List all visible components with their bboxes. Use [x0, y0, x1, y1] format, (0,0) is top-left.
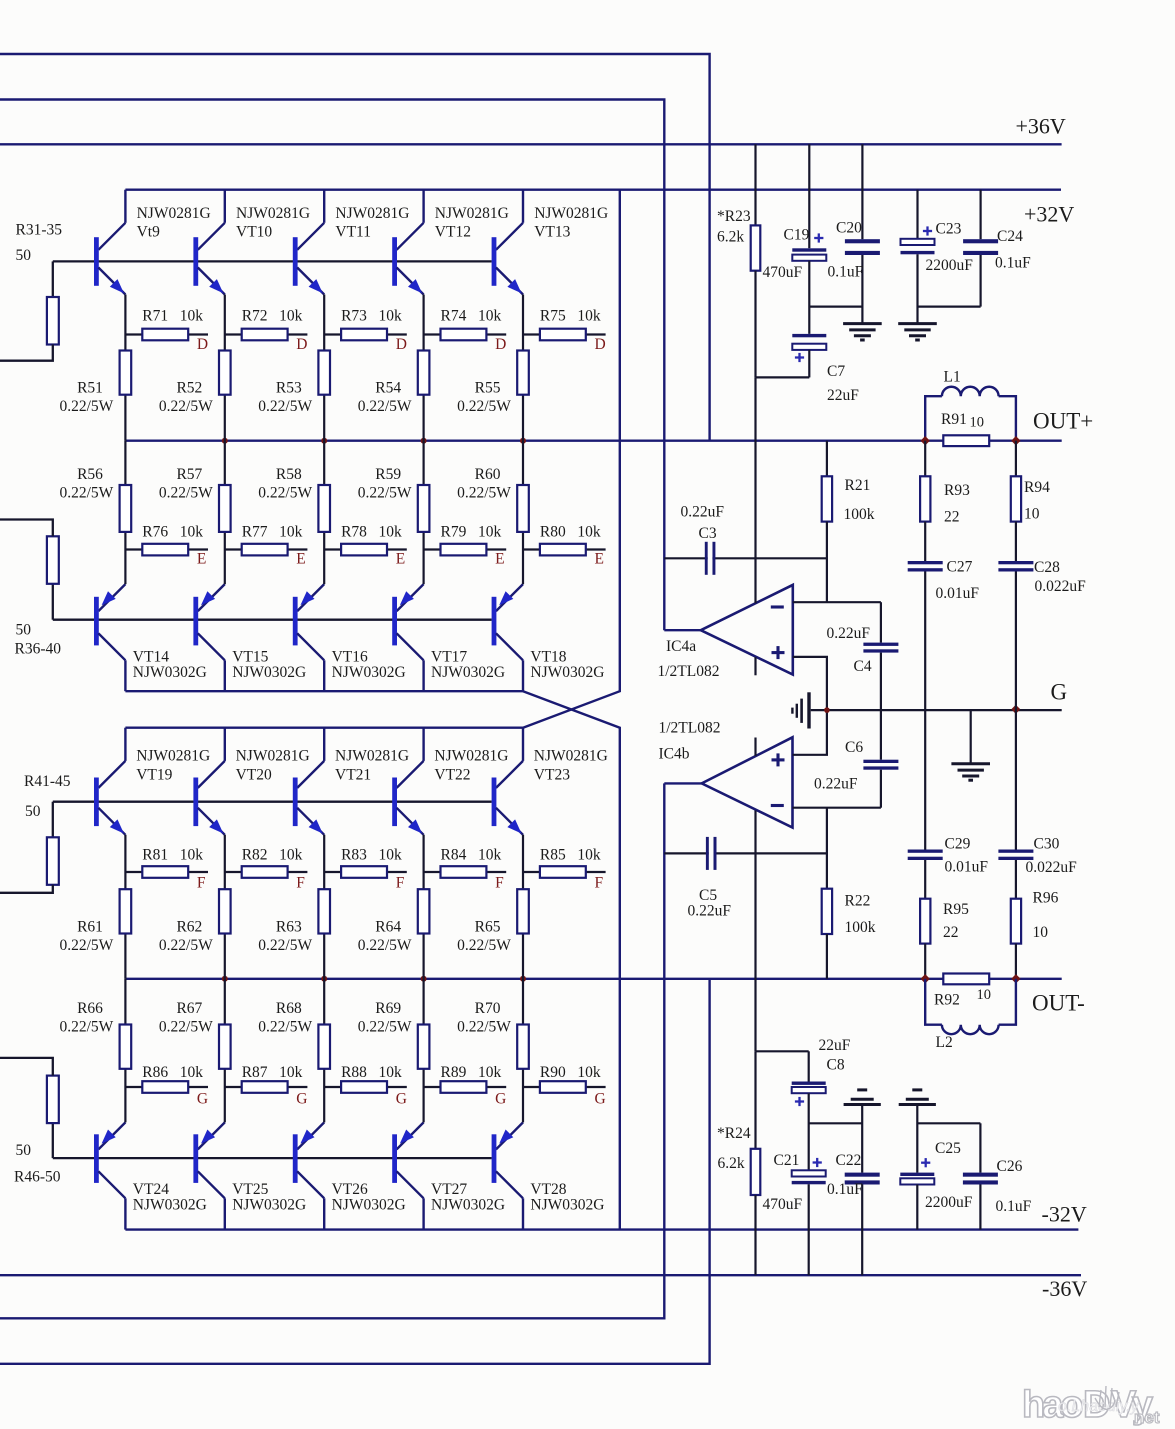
- svg-text:D: D: [495, 336, 506, 353]
- svg-text:0.1uF: 0.1uF: [995, 255, 1031, 272]
- svg-text:NJW0281G: NJW0281G: [434, 748, 508, 765]
- resistor R74: [424, 329, 507, 341]
- resistor R85: [523, 866, 606, 878]
- svg-text:R41-45: R41-45: [24, 773, 71, 790]
- label R73 10k: [341, 308, 402, 325]
- resistor R95: [920, 899, 930, 979]
- label VT27: [431, 1181, 505, 1214]
- resistor R76: [125, 544, 208, 556]
- polarity + C19: [814, 233, 823, 242]
- label R71 10k: [142, 308, 203, 325]
- label R95: [943, 901, 969, 941]
- label R90 10k: [540, 1064, 601, 1081]
- label VT12: [435, 205, 509, 241]
- label R96: [1033, 890, 1059, 942]
- label R56: [59, 466, 113, 502]
- svg-text:0.22/5W: 0.22/5W: [59, 937, 113, 954]
- svg-text:E: E: [495, 551, 504, 568]
- svg-text:D: D: [197, 336, 208, 353]
- node G col5: [595, 1091, 606, 1108]
- svg-text:VT28: VT28: [530, 1181, 566, 1198]
- svg-text:VT21: VT21: [335, 767, 371, 784]
- label +36V: [1016, 114, 1066, 139]
- label R61: [59, 919, 113, 955]
- svg-text:0.1uF: 0.1uF: [827, 1181, 863, 1198]
- svg-text:0.22uF: 0.22uF: [688, 903, 732, 920]
- label R23: [717, 208, 751, 246]
- svg-text:C19: C19: [784, 227, 810, 244]
- inductor L1: [925, 387, 1016, 441]
- node G col1: [197, 1091, 208, 1108]
- svg-text:C4: C4: [854, 658, 872, 675]
- resistor R78: [324, 544, 407, 556]
- resistor R92: [943, 974, 989, 985]
- label R83 10k: [341, 847, 402, 864]
- svg-text:R64: R64: [375, 919, 401, 936]
- svg-text:-36V: -36V: [1042, 1276, 1087, 1301]
- svg-text:R74 10k: R74 10k: [441, 308, 502, 325]
- resistor R69: [418, 1025, 430, 1069]
- svg-text:R94: R94: [1024, 479, 1050, 496]
- wire IC4a inverting input: [793, 601, 881, 603]
- resistor R89: [424, 1081, 507, 1093]
- svg-text:6.2k: 6.2k: [717, 229, 744, 246]
- svg-text:50: 50: [16, 1142, 32, 1159]
- node junction L2 left: [921, 974, 930, 983]
- svg-text:L2: L2: [936, 1034, 953, 1051]
- label R87 10k: [242, 1064, 303, 1081]
- label R64: [358, 919, 412, 955]
- svg-text:C21: C21: [774, 1152, 800, 1169]
- svg-text:R87 10k: R87 10k: [242, 1064, 303, 1081]
- label C29: [945, 836, 989, 876]
- svg-text:470uF: 470uF: [763, 264, 803, 281]
- svg-text:R31-35: R31-35: [16, 222, 63, 239]
- capacitor C5: [706, 837, 717, 870]
- svg-text:G: G: [495, 1091, 506, 1108]
- node junction upper rail col5: [520, 438, 526, 444]
- label C4: [827, 625, 872, 675]
- resistor R36-40: [47, 536, 59, 584]
- label C6: [814, 739, 863, 793]
- svg-text:C5: C5: [699, 887, 717, 904]
- label R60: [457, 466, 511, 502]
- svg-text:F: F: [595, 875, 604, 892]
- resistor R22: [822, 808, 832, 979]
- wire emitter column lower-pnp col3: [323, 979, 325, 1123]
- label 50 (R31-35): [16, 247, 32, 264]
- label R70: [457, 1000, 511, 1036]
- svg-text:R72 10k: R72 10k: [242, 308, 303, 325]
- svg-text:E: E: [396, 551, 405, 568]
- capacitor C8: [792, 1051, 826, 1170]
- svg-text:NJW0302G: NJW0302G: [133, 664, 207, 681]
- node G col3: [396, 1091, 407, 1108]
- label VT18: [530, 649, 604, 682]
- svg-text:0.1uF: 0.1uF: [996, 1198, 1032, 1215]
- svg-text:VT22: VT22: [434, 767, 470, 784]
- node junction ground/C28: [1011, 705, 1020, 714]
- wire emitter column upper col5: [522, 295, 524, 441]
- svg-text:0.22/5W: 0.22/5W: [358, 485, 412, 502]
- label C26: [996, 1158, 1032, 1215]
- label Vt9: [137, 205, 211, 241]
- svg-text:+36V: +36V: [1016, 114, 1066, 139]
- svg-text:C8: C8: [827, 1057, 845, 1074]
- svg-text:C26: C26: [997, 1158, 1023, 1175]
- svg-text:VT26: VT26: [332, 1181, 368, 1198]
- svg-text:R89 10k: R89 10k: [441, 1064, 502, 1081]
- svg-text:0.22/5W: 0.22/5W: [159, 937, 213, 954]
- svg-text:G: G: [296, 1091, 307, 1108]
- node F col4: [495, 875, 504, 892]
- wire emitter column upper col1: [124, 295, 126, 441]
- svg-text:2200uF: 2200uF: [926, 257, 974, 274]
- wire OUT+ rail (upper emitter node): [125, 440, 1061, 442]
- label R77 10k: [242, 524, 303, 541]
- wire R31-35 to edge: [0, 345, 53, 361]
- svg-text:R82 10k: R82 10k: [242, 847, 303, 864]
- transistor VT19 NJW0281G: [94, 728, 125, 835]
- wire -36V rail: [0, 1274, 1081, 1276]
- transistor VT21 NJW0281G: [293, 728, 324, 835]
- svg-text:L1: L1: [944, 369, 961, 386]
- svg-text:G: G: [1051, 680, 1068, 705]
- capacitor C25: [900, 1106, 934, 1230]
- svg-text:C22: C22: [836, 1152, 862, 1169]
- node E col5: [595, 551, 604, 568]
- wire cross-connect upper PNP bus to -32V: [523, 691, 620, 1229]
- label R21: [844, 477, 875, 523]
- resistor R77: [225, 544, 308, 556]
- label R89 10k: [441, 1064, 502, 1081]
- resistor R94: [1011, 441, 1021, 561]
- wire C26/C25 ground link: [917, 1122, 980, 1124]
- svg-text:0.22/5W: 0.22/5W: [159, 398, 213, 415]
- wire R31-35 branch: [52, 261, 54, 297]
- watermark haoDV.net: [1022, 1384, 1160, 1427]
- wire IC4a non-inverting input: [793, 657, 827, 710]
- label VT25: [232, 1181, 306, 1214]
- label C28: [1034, 559, 1086, 595]
- transistor VT13 NJW0281G: [492, 190, 523, 295]
- wire R36-40 to edge: [0, 520, 53, 537]
- node junction upper rail col4: [421, 438, 427, 444]
- resistor R79: [424, 544, 507, 556]
- svg-text:R71 10k: R71 10k: [142, 308, 203, 325]
- wire C8 to R24 node: [756, 1050, 809, 1052]
- resistor R80: [523, 544, 606, 556]
- wire emitter column lower col1: [124, 835, 126, 979]
- wire R46-50 to edge: [0, 1058, 53, 1076]
- label R75 10k: [540, 308, 601, 325]
- svg-text:NJW0281G: NJW0281G: [335, 205, 409, 222]
- svg-text:VT13: VT13: [534, 224, 570, 241]
- node E col3: [396, 551, 405, 568]
- svg-text:F: F: [396, 875, 405, 892]
- label R84 10k: [441, 847, 502, 864]
- svg-text:R78 10k: R78 10k: [341, 524, 402, 541]
- wire +36V rail: [0, 143, 1062, 145]
- label VT26: [332, 1181, 406, 1214]
- svg-text:R56: R56: [77, 466, 103, 483]
- label C27: [936, 559, 980, 603]
- node junction upper rail col3: [321, 438, 327, 444]
- svg-text:0.22/5W: 0.22/5W: [59, 1019, 113, 1036]
- label C19: [763, 227, 810, 282]
- label R31-35: [16, 222, 63, 239]
- resistor R91: [943, 435, 989, 446]
- resistor R71: [125, 329, 208, 341]
- svg-text:0.22/5W: 0.22/5W: [457, 937, 511, 954]
- svg-text:0.22/5W: 0.22/5W: [358, 937, 412, 954]
- svg-text:E: E: [595, 551, 604, 568]
- svg-text:R59: R59: [375, 466, 401, 483]
- svg-text:R75 10k: R75 10k: [540, 308, 601, 325]
- ground (under C20): [843, 324, 882, 340]
- label R66: [59, 1000, 113, 1036]
- svg-text:OUT-: OUT-: [1032, 991, 1085, 1016]
- node junction L1 left: [921, 436, 930, 445]
- resistor R46-50: [47, 1076, 59, 1124]
- svg-text:R77 10k: R77 10k: [242, 524, 303, 541]
- svg-text:R93: R93: [944, 482, 970, 499]
- wire -32V collector bus: [125, 1228, 1078, 1230]
- wire lower NPN collector bus: [125, 727, 523, 729]
- resistor R83: [324, 866, 407, 878]
- wire C19/C20 ground link: [809, 306, 862, 308]
- node junction lower rail col3: [321, 976, 327, 982]
- transistor VT15 NJW0302G: [193, 584, 224, 691]
- transistor VT23 NJW0281G: [492, 728, 523, 835]
- svg-text:NJW0281G: NJW0281G: [136, 748, 210, 765]
- node junction upper rail col2: [222, 438, 228, 444]
- svg-text:0.22/5W: 0.22/5W: [59, 485, 113, 502]
- svg-text:C27: C27: [947, 559, 973, 576]
- resistor R56: [120, 485, 132, 532]
- resistor R96: [1011, 899, 1021, 979]
- transistor VT17 NJW0302G: [392, 584, 423, 691]
- transistor VT25 NJW0302G: [193, 1122, 224, 1229]
- svg-text:F: F: [296, 875, 305, 892]
- label C24: [995, 228, 1031, 272]
- svg-text:VT23: VT23: [534, 767, 570, 784]
- ground (G rail earth): [951, 710, 990, 780]
- resistor R93: [920, 441, 930, 561]
- wire base rail upper NPN: [53, 260, 492, 262]
- capacitor C27: [908, 561, 943, 710]
- svg-text:R81 10k: R81 10k: [142, 847, 203, 864]
- svg-text:0.22/5W: 0.22/5W: [358, 1019, 412, 1036]
- wire R46-50 branch: [52, 1123, 54, 1158]
- svg-text:NJW0281G: NJW0281G: [335, 748, 409, 765]
- svg-text:0.22uF: 0.22uF: [827, 625, 871, 642]
- svg-text:0.22/5W: 0.22/5W: [258, 485, 312, 502]
- svg-text:C23: C23: [936, 221, 962, 238]
- svg-text:100k: 100k: [845, 919, 876, 936]
- label C25: [925, 1140, 973, 1211]
- svg-text:R53: R53: [276, 380, 302, 397]
- svg-text:1/2TL082: 1/2TL082: [659, 720, 721, 737]
- svg-text:VT20: VT20: [236, 767, 272, 784]
- label R65: [457, 919, 511, 955]
- label R52: [159, 380, 213, 416]
- svg-text:50: 50: [16, 247, 32, 264]
- svg-text:R88 10k: R88 10k: [341, 1064, 402, 1081]
- svg-text:R63: R63: [276, 919, 302, 936]
- svg-text:R61: R61: [77, 919, 103, 936]
- capacitor C24: [963, 190, 998, 307]
- node F col1: [197, 875, 206, 892]
- svg-text:R54: R54: [375, 380, 401, 397]
- op-amp IC4a: [701, 585, 793, 675]
- svg-text:50: 50: [16, 622, 32, 639]
- svg-text:D: D: [296, 336, 307, 353]
- resistor R53: [318, 351, 330, 395]
- svg-text:VT27: VT27: [431, 1181, 467, 1198]
- wire C5 link: [664, 852, 827, 854]
- svg-text:22uF: 22uF: [827, 387, 859, 404]
- svg-text:0.22/5W: 0.22/5W: [358, 398, 412, 415]
- label OUT-: [1032, 991, 1085, 1016]
- label R92: [934, 987, 991, 1009]
- polarity + C23: [923, 226, 932, 235]
- wire base rail lower PNP: [53, 1157, 492, 1159]
- resistor R41-45: [47, 837, 59, 885]
- svg-text:R90 10k: R90 10k: [540, 1064, 601, 1081]
- svg-text:R60: R60: [475, 466, 501, 483]
- svg-text:+32V: +32V: [1024, 202, 1074, 227]
- svg-text:NJW0302G: NJW0302G: [332, 1197, 406, 1214]
- svg-text:F: F: [197, 875, 206, 892]
- wire emitter column upper-pnp col3: [323, 441, 325, 584]
- label R68: [258, 1000, 312, 1036]
- svg-text:NJW0281G: NJW0281G: [435, 205, 509, 222]
- resistor R23: [751, 144, 761, 377]
- wire IC4a V+ pin: [754, 377, 756, 603]
- svg-text:VT10: VT10: [236, 224, 272, 241]
- svg-text:NJW0281G: NJW0281G: [236, 205, 310, 222]
- svg-text:10: 10: [1024, 506, 1040, 523]
- svg-text:NJW0281G: NJW0281G: [137, 205, 211, 222]
- svg-text:0.22/5W: 0.22/5W: [258, 398, 312, 415]
- ground (under C23): [898, 324, 937, 340]
- resistor R87: [225, 1081, 308, 1093]
- wire emitter column upper col3: [323, 295, 325, 441]
- node D col1: [197, 336, 208, 353]
- label R41-45: [24, 773, 71, 790]
- resistor R51: [120, 351, 132, 395]
- wire emitter column lower col4: [423, 835, 425, 979]
- wire IC4a output: [664, 629, 701, 631]
- svg-text:D: D: [396, 336, 407, 353]
- resistor R84: [424, 866, 507, 878]
- label VT15: [232, 649, 306, 682]
- resistor R81: [125, 866, 208, 878]
- svg-text:R55: R55: [475, 380, 501, 397]
- svg-text:NJW0302G: NJW0302G: [232, 664, 306, 681]
- svg-text:R73 10k: R73 10k: [341, 308, 402, 325]
- resistor R59: [418, 485, 430, 532]
- node junction lower rail col2: [222, 976, 228, 982]
- label G: [1051, 680, 1068, 705]
- svg-text:VT24: VT24: [133, 1181, 169, 1198]
- svg-text:0.22/5W: 0.22/5W: [457, 485, 511, 502]
- label R94: [1024, 479, 1050, 523]
- svg-text:C30: C30: [1034, 836, 1060, 853]
- label VT10: [236, 205, 310, 241]
- label R58: [258, 466, 312, 502]
- polarity + C21: [813, 1158, 822, 1167]
- svg-text:C20: C20: [836, 220, 862, 237]
- transistor Vt9 NJW0281G: [94, 190, 125, 295]
- node junction lower rail col5: [520, 976, 526, 982]
- label C23: [926, 221, 974, 275]
- wire emitter column lower-pnp col5: [522, 979, 524, 1123]
- transistor VT14 NJW0302G: [94, 584, 125, 691]
- capacitor C23: [901, 190, 935, 323]
- resistor R88: [324, 1081, 407, 1093]
- svg-text:E: E: [197, 551, 206, 568]
- svg-text:0.22uF: 0.22uF: [681, 504, 725, 521]
- label 50 (R36-40): [16, 622, 32, 639]
- resistor R61: [120, 889, 132, 933]
- svg-text:0.22/5W: 0.22/5W: [457, 398, 511, 415]
- svg-text:0.022uF: 0.022uF: [1026, 859, 1078, 876]
- svg-text:NJW0302G: NJW0302G: [431, 664, 505, 681]
- svg-text:R69: R69: [375, 1000, 401, 1017]
- wire IC4b non-inverting input: [793, 710, 827, 755]
- label R86 10k: [142, 1064, 203, 1081]
- label VT28: [530, 1181, 604, 1214]
- node E col4: [495, 551, 504, 568]
- transistor VT18 NJW0302G: [492, 584, 523, 691]
- transistor VT26 NJW0302G: [293, 1122, 324, 1229]
- label R57: [159, 466, 213, 502]
- svg-text:0.01uF: 0.01uF: [945, 859, 989, 876]
- resistor R55: [517, 351, 529, 395]
- label R55: [457, 380, 511, 416]
- resistor R52: [219, 351, 231, 395]
- resistor R86: [125, 1081, 208, 1093]
- svg-text:22: 22: [943, 924, 959, 941]
- label C8: [819, 1037, 851, 1074]
- node D col2: [296, 336, 307, 353]
- svg-text:R95: R95: [943, 901, 969, 918]
- svg-text:E: E: [296, 551, 305, 568]
- resistor R73: [324, 329, 407, 341]
- svg-text:R76 10k: R76 10k: [142, 524, 203, 541]
- svg-text:-32V: -32V: [1042, 1202, 1087, 1227]
- label R76 10k: [142, 524, 203, 541]
- svg-text:R79 10k: R79 10k: [441, 524, 502, 541]
- svg-text:G: G: [396, 1091, 407, 1108]
- transistor VT10 NJW0281G: [193, 190, 224, 295]
- label R67: [159, 1000, 213, 1036]
- svg-text:R92: R92: [934, 992, 960, 1009]
- svg-text:NJW0281G: NJW0281G: [534, 748, 608, 765]
- wire IC4b V+ stub: [754, 738, 756, 757]
- svg-text:NJW0302G: NJW0302G: [332, 664, 406, 681]
- svg-text:VT25: VT25: [232, 1181, 268, 1198]
- node G col2: [296, 1091, 307, 1108]
- label C5: [688, 887, 732, 920]
- svg-text:10: 10: [1033, 924, 1049, 941]
- resistor R70: [517, 1025, 529, 1069]
- node D col3: [396, 336, 407, 353]
- svg-text:0.22/5W: 0.22/5W: [457, 1019, 511, 1036]
- label 1/2TL082 (IC4a): [658, 663, 720, 680]
